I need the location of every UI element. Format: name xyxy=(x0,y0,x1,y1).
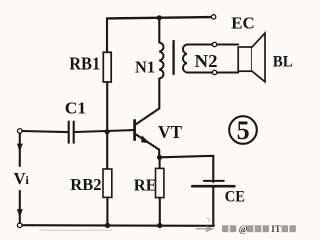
wire top rail xyxy=(107,17,211,18)
node N2 top terminal xyxy=(212,42,216,46)
capacitor C1 left plate xyxy=(68,122,70,143)
svg-text:C1: C1 xyxy=(65,99,86,118)
node N2 bottom terminal xyxy=(212,70,216,74)
svg-text:RB2: RB2 xyxy=(70,175,101,194)
svg-text:VT: VT xyxy=(158,122,182,142)
transformer core xyxy=(172,41,174,74)
wire RB2 bottom xyxy=(106,197,108,225)
wire Vi upper arrow xyxy=(19,134,21,166)
wire RE bottom xyxy=(159,198,161,226)
svg-text:CE: CE xyxy=(225,189,245,206)
resistor RB1 xyxy=(103,52,111,82)
wire input xyxy=(22,131,67,132)
svg-text:5: 5 xyxy=(237,116,250,145)
wire N2 bottom xyxy=(187,71,238,73)
svg-text:N1: N1 xyxy=(135,58,155,77)
node EC terminal xyxy=(211,15,215,19)
scan ghost under rail xyxy=(40,229,112,231)
svg-text:N2: N2 xyxy=(195,51,218,71)
node junction top rail xyxy=(157,15,162,20)
node RE bottom junction xyxy=(157,223,162,228)
wire CE bottom xyxy=(212,187,214,225)
wire Vi lower arrow xyxy=(19,191,21,223)
node RB2 bottom junction xyxy=(105,223,110,228)
node base junction xyxy=(105,129,110,134)
inductor N2 secondary winding xyxy=(183,45,187,73)
transistor VT emitter arrow xyxy=(141,135,150,143)
capacitor CE top plate xyxy=(204,180,224,182)
wire N1 bottom to collector xyxy=(136,79,159,125)
node emitter junction xyxy=(157,155,162,160)
wire N1 top xyxy=(158,18,160,43)
svg-text:RB1: RB1 xyxy=(69,54,100,74)
wire emitter to CE xyxy=(160,156,214,182)
wire bottom rail xyxy=(22,224,214,227)
speaker BL xyxy=(238,47,252,71)
transistor VT base bar xyxy=(133,120,136,139)
wire N2 top xyxy=(187,43,238,45)
wire RE top xyxy=(159,157,161,168)
svg-text:RE: RE xyxy=(134,176,157,195)
svg-text:EC: EC xyxy=(231,13,255,32)
node input bottom terminal xyxy=(17,223,22,228)
node input top terminal xyxy=(18,129,23,134)
svg-text:Vi: Vi xyxy=(14,169,30,188)
wire base xyxy=(75,130,133,132)
svg-text:IT: IT xyxy=(271,224,281,234)
wire RB1 top xyxy=(106,18,108,52)
transistor VT emitter xyxy=(136,134,160,157)
svg-text:BL: BL xyxy=(273,54,293,71)
circled figure number 5 xyxy=(229,116,257,144)
wire RB2 top xyxy=(106,131,108,169)
svg-text:@: @ xyxy=(239,225,248,235)
watermark xyxy=(196,218,296,235)
resistor RB2 xyxy=(103,169,112,197)
resistor RE xyxy=(156,168,164,197)
capacitor CE bottom plate xyxy=(192,185,234,188)
wire RB1 bottom xyxy=(106,82,108,131)
inductor N1 primary winding xyxy=(159,43,163,79)
capacitor C1 right plate xyxy=(73,122,75,143)
